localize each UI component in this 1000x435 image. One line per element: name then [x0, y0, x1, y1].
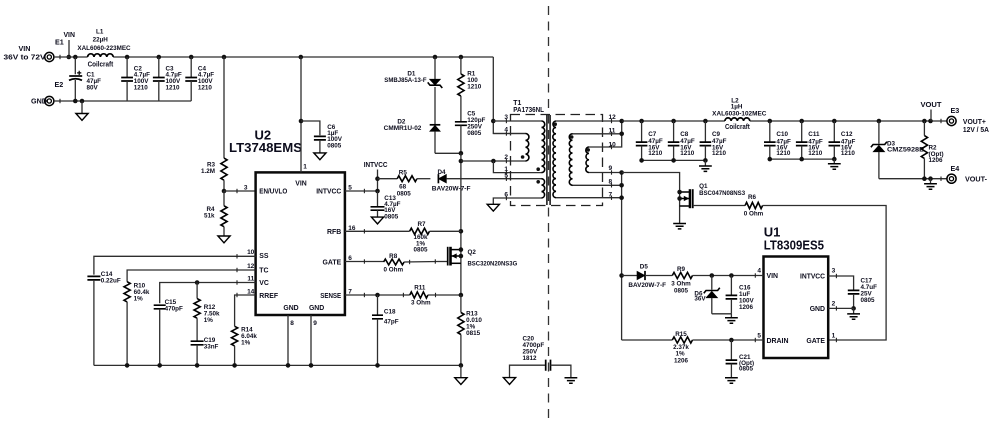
- resistor R8: [383, 253, 437, 273]
- svg-text:4: 4: [757, 267, 761, 274]
- svg-text:INTVCC: INTVCC: [316, 189, 341, 196]
- svg-text:3 Ohm: 3 Ohm: [411, 300, 431, 307]
- svg-text:0805: 0805: [384, 213, 399, 220]
- wire U2 VC pin11: [160, 280, 256, 303]
- svg-text:470pF: 470pF: [165, 306, 183, 313]
- svg-text:CMMR1U-02: CMMR1U-02: [384, 125, 422, 132]
- resistor R4: [204, 191, 227, 236]
- svg-text:1µH: 1µH: [731, 103, 743, 110]
- wire U2 RFB pin16: [345, 230, 410, 232]
- ground below C16: [725, 314, 738, 323]
- net label VIN: [63, 30, 75, 59]
- wire T1 pin4 lead: [493, 133, 525, 135]
- T1 secondary winding pins 11-8: [569, 134, 573, 186]
- svg-text:GND: GND: [283, 305, 298, 312]
- svg-text:VC: VC: [259, 280, 269, 287]
- svg-text:3: 3: [832, 267, 836, 274]
- svg-text:47pF: 47pF: [384, 318, 399, 325]
- op IC U2 LT3748EMS box: [229, 127, 356, 326]
- svg-text:3 Ohm: 3 Ohm: [671, 281, 691, 288]
- wire U2 SS pin10 / capacitor C14 branch: [94, 256, 256, 274]
- svg-text:GND: GND: [309, 305, 324, 312]
- capacitor C4: [185, 57, 214, 101]
- resistor R15: [622, 331, 764, 364]
- resistor R11: [410, 285, 463, 307]
- transistor Q1: [677, 183, 745, 208]
- capacitor C18: [372, 295, 399, 365]
- wire U2 RREF pin14: [235, 295, 256, 326]
- svg-text:R5: R5: [399, 170, 408, 177]
- wire transformer pin2/pin1 tie: [461, 159, 542, 173]
- svg-text:C11: C11: [808, 131, 820, 138]
- svg-text:1210: 1210: [776, 150, 791, 157]
- svg-text:SS: SS: [259, 253, 269, 260]
- transistor Q2: [438, 247, 518, 268]
- svg-text:0805: 0805: [674, 288, 689, 295]
- svg-text:D4: D4: [437, 169, 446, 176]
- svg-text:R7: R7: [417, 221, 426, 228]
- capacitor C5: [455, 111, 486, 156]
- ground below C6: [314, 153, 326, 160]
- ground VOUT-: [924, 179, 937, 190]
- svg-text:1210: 1210: [680, 150, 695, 157]
- svg-text:0815: 0815: [466, 330, 481, 337]
- svg-text:C7: C7: [648, 131, 657, 138]
- svg-text:0805: 0805: [327, 142, 342, 149]
- zener D6: [694, 273, 731, 314]
- ground primary main: [455, 365, 467, 384]
- svg-text:1210: 1210: [134, 84, 149, 91]
- svg-text:8: 8: [290, 320, 294, 327]
- svg-text:1: 1: [303, 163, 307, 170]
- svg-text:0805: 0805: [739, 366, 754, 373]
- svg-text:C9: C9: [712, 131, 721, 138]
- svg-text:XAL6060-223MEC: XAL6060-223MEC: [77, 45, 131, 52]
- svg-text:Coilcraft: Coilcraft: [88, 59, 114, 68]
- T1 bias winding pins 5-6: [536, 179, 544, 198]
- svg-text:1206: 1206: [674, 358, 689, 365]
- svg-text:PA1736NL: PA1736NL: [513, 107, 544, 114]
- capacitor C7: [636, 121, 663, 160]
- inductor L1: [77, 29, 131, 69]
- svg-text:Q1: Q1: [699, 183, 708, 190]
- wire primary ground rail: [94, 363, 463, 368]
- T1 primary winding pins 4-2: [521, 134, 529, 162]
- svg-text:22µH: 22µH: [93, 36, 109, 43]
- wire U2 pin1 VIN: [299, 57, 304, 172]
- capacitor C21: [726, 338, 754, 378]
- ground Q1 source: [673, 224, 686, 229]
- capacitor C12: [829, 121, 856, 159]
- capacitor C13: [371, 191, 401, 220]
- node EN/UVLO divider junction: [222, 189, 256, 194]
- wire rail to transformer pins 3/4: [491, 57, 526, 134]
- diode D2: [384, 119, 461, 154]
- svg-text:0 Ohm: 0 Ohm: [383, 267, 403, 274]
- svg-text:SMBJ85A-13-F: SMBJ85A-13-F: [384, 77, 426, 84]
- svg-text:1%: 1%: [134, 296, 144, 303]
- terminal E2 GND input: [31, 80, 63, 106]
- capacitor C1: [69, 57, 101, 101]
- svg-text:1%: 1%: [241, 339, 251, 346]
- ground secondary C9: [699, 160, 712, 171]
- svg-text:C8: C8: [680, 131, 689, 138]
- wire T1 pin6 lead: [493, 198, 541, 204]
- svg-text:D5: D5: [640, 263, 649, 270]
- svg-text:INTVCC: INTVCC: [364, 160, 388, 169]
- svg-text:R8: R8: [389, 253, 398, 260]
- svg-text:SENSE: SENSE: [320, 293, 341, 300]
- resistor R12: [194, 283, 220, 342]
- resistor R13: [458, 295, 483, 365]
- svg-text:51k: 51k: [204, 212, 215, 219]
- svg-text:BSC047N08NS3: BSC047N08NS3: [699, 190, 745, 197]
- op IC U1 LT8309ES5 box: [757, 225, 835, 358]
- terminal E3 VOUT+: [947, 106, 989, 134]
- wire U2 GATE pin6: [345, 261, 384, 263]
- svg-text:1210: 1210: [198, 84, 213, 91]
- svg-text:36V: 36V: [694, 296, 706, 303]
- svg-text:GND: GND: [31, 96, 47, 105]
- resistor R7: [410, 221, 461, 253]
- wire U1 INTVCC pin3: [828, 276, 853, 290]
- svg-text:1210: 1210: [841, 150, 856, 157]
- svg-text:1%: 1%: [204, 317, 214, 324]
- svg-text:C12: C12: [841, 131, 853, 138]
- svg-text:0805: 0805: [467, 130, 482, 137]
- svg-text:GATE: GATE: [806, 338, 825, 345]
- T1 pin numbers: [504, 114, 616, 199]
- ground C20 secondary side: [565, 378, 578, 383]
- svg-text:12: 12: [609, 114, 617, 121]
- svg-text:C10: C10: [776, 131, 788, 138]
- svg-text:1210: 1210: [808, 150, 823, 157]
- svg-text:XAL6030-102MEC: XAL6030-102MEC: [712, 111, 767, 118]
- svg-text:1812: 1812: [523, 355, 538, 362]
- svg-text:0 Ohm: 0 Ohm: [744, 211, 764, 218]
- resistor R6: [693, 194, 764, 218]
- svg-text:5: 5: [348, 184, 352, 191]
- svg-text:1210: 1210: [648, 150, 663, 157]
- ground input: [76, 101, 88, 120]
- svg-text:3: 3: [244, 184, 248, 191]
- capacitor C6: [301, 121, 343, 153]
- diode D4: [432, 169, 471, 193]
- svg-text:E4: E4: [951, 164, 960, 173]
- ground below R4: [218, 236, 230, 243]
- ground U1 GND: [847, 308, 860, 319]
- wire switch node vertical: [459, 153, 464, 295]
- svg-text:LT3748EMS: LT3748EMS: [229, 140, 302, 155]
- svg-text:BSC320N20NS3G: BSC320N20NS3G: [468, 261, 518, 268]
- resistor R2: [921, 121, 943, 179]
- isolation barrier dashed line: [548, 6, 550, 420]
- svg-text:E2: E2: [55, 80, 64, 89]
- resistor R10: [124, 282, 150, 366]
- svg-text:9: 9: [313, 320, 317, 327]
- wire U2 TC pin12: [127, 270, 256, 282]
- wire T1 pins 9-8-7 tie: [556, 170, 624, 340]
- resistor R5: [378, 170, 431, 198]
- ground C20 primary side: [503, 378, 515, 385]
- wire T1 pin9 to Q1 drain: [622, 173, 680, 224]
- wire VOUT top rail: [622, 119, 947, 124]
- svg-text:12: 12: [247, 263, 255, 270]
- svg-text:BAV20W-7-F: BAV20W-7-F: [432, 185, 471, 192]
- svg-text:BAV20W-7-F: BAV20W-7-F: [628, 282, 666, 289]
- svg-text:VOUT-: VOUT-: [965, 174, 988, 183]
- TVS diode D1: [384, 57, 442, 124]
- svg-text:RFB: RFB: [327, 229, 341, 236]
- svg-text:DRAIN: DRAIN: [767, 338, 789, 345]
- zener D3: [871, 121, 925, 179]
- svg-text:11: 11: [247, 275, 254, 282]
- svg-text:GND: GND: [810, 306, 825, 313]
- svg-text:Q2: Q2: [468, 249, 477, 256]
- svg-text:10: 10: [247, 249, 255, 256]
- resistor R9: [645, 266, 764, 295]
- wire C7-C9 ground rail: [639, 158, 707, 163]
- net label INTVCC: [364, 160, 388, 191]
- svg-text:R15: R15: [675, 331, 687, 338]
- pin end ticks: [60, 55, 941, 342]
- ground secondary C12: [828, 159, 841, 169]
- svg-text:L1: L1: [96, 29, 104, 36]
- capacitor C19: [191, 337, 219, 365]
- svg-text:7: 7: [348, 288, 352, 295]
- ground below C13: [371, 217, 383, 224]
- svg-text:36V to 72V: 36V to 72V: [4, 53, 46, 62]
- inductor L2: [712, 97, 767, 130]
- svg-text:R9: R9: [677, 266, 686, 273]
- wire input GND rail: [54, 99, 191, 104]
- ground T1 pin6: [487, 204, 499, 211]
- transformer core: [547, 115, 550, 205]
- wire U1 GND pin2: [828, 307, 853, 309]
- svg-text:1: 1: [832, 332, 836, 339]
- svg-text:1210: 1210: [712, 150, 727, 157]
- svg-text:80V: 80V: [87, 85, 99, 92]
- wire R6 to U1 GATE: [763, 206, 887, 341]
- svg-text:CMZ5928B: CMZ5928B: [887, 146, 925, 153]
- wire U2 SENSE pin7: [345, 293, 410, 298]
- diode D5: [622, 263, 667, 289]
- svg-text:VIN: VIN: [767, 273, 779, 280]
- svg-text:TC: TC: [259, 268, 268, 275]
- wire D4 to transformer pin5: [446, 178, 541, 180]
- capacitor C20 (Y-cap across barrier): [510, 336, 571, 378]
- svg-text:C18: C18: [384, 309, 396, 316]
- svg-text:1206: 1206: [739, 304, 754, 311]
- svg-text:12V / 5A: 12V / 5A: [963, 125, 989, 134]
- wire C10-C12 ground rail: [768, 157, 837, 162]
- svg-text:EN/UVLO: EN/UVLO: [259, 189, 288, 196]
- svg-text:RREF: RREF: [259, 293, 278, 300]
- svg-text:14: 14: [247, 288, 255, 295]
- resistor R3: [201, 57, 227, 191]
- ground below C21: [725, 378, 738, 383]
- svg-text:0805: 0805: [397, 190, 412, 197]
- svg-text:T1: T1: [513, 100, 521, 107]
- svg-text:VIN: VIN: [295, 180, 307, 187]
- capacitor C16: [726, 273, 755, 314]
- svg-text:R6: R6: [748, 194, 757, 201]
- capacitor C17: [848, 277, 877, 310]
- terminal E4 VOUT-: [947, 164, 988, 183]
- svg-text:Coilcraft: Coilcraft: [725, 122, 750, 131]
- svg-text:VOUT: VOUT: [921, 100, 943, 109]
- svg-text:2: 2: [832, 300, 836, 307]
- resistor R14: [232, 326, 258, 365]
- svg-text:GATE: GATE: [323, 259, 342, 266]
- svg-text:1210: 1210: [467, 84, 482, 91]
- wire VOUT- rail: [879, 176, 947, 181]
- wire T1 pin3 lead: [493, 120, 541, 122]
- net label VOUT: [921, 100, 943, 121]
- T1 primary winding pins 3-1: [536, 121, 544, 173]
- terminal E1 VIN input: [4, 38, 64, 62]
- wire U2 GND pins 8 9: [288, 315, 311, 365]
- capacitor C3: [153, 57, 182, 101]
- capacitor C8: [668, 121, 695, 160]
- capacitor C10: [764, 121, 791, 159]
- svg-text:R11: R11: [414, 285, 426, 292]
- capacitor C14: [87, 271, 121, 366]
- wire T1 pins 12-11-10 tie: [556, 119, 624, 147]
- wire VIN top rail: [54, 55, 493, 60]
- svg-text:INTVCC: INTVCC: [800, 274, 825, 281]
- wire U2 INTVCC pin5: [345, 189, 380, 194]
- resistor R1: [458, 57, 482, 122]
- svg-text:0805: 0805: [861, 297, 876, 304]
- capacitor C2: [121, 57, 150, 101]
- capacitor C11: [796, 121, 823, 159]
- transformer T1 PA1736NL dashed box: [511, 100, 603, 206]
- svg-text:33nF: 33nF: [204, 344, 219, 351]
- svg-text:VIN: VIN: [63, 30, 75, 39]
- svg-text:0805: 0805: [413, 247, 428, 254]
- svg-text:5: 5: [757, 332, 761, 339]
- svg-text:1210: 1210: [166, 84, 181, 91]
- svg-text:LT8309ES5: LT8309ES5: [764, 238, 824, 253]
- svg-text:1.2M: 1.2M: [201, 168, 215, 175]
- svg-text:1206: 1206: [929, 157, 944, 164]
- svg-text:0.22uF: 0.22uF: [101, 277, 121, 284]
- T1 secondary winding pins 12-7: [553, 121, 557, 198]
- capacitor C9: [700, 121, 727, 160]
- T1 secondary winding pins 10-9: [586, 147, 590, 173]
- svg-text:E3: E3: [951, 106, 960, 115]
- capacitor C15: [154, 299, 183, 365]
